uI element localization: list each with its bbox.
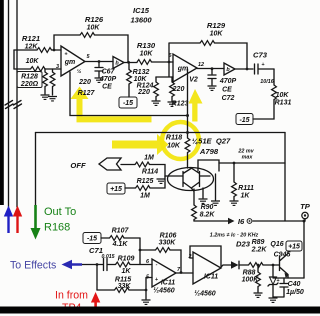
- op-amp U1b (IC15 second OTA): [169, 53, 205, 84]
- svg-text:½4560: ½4560: [153, 287, 175, 295]
- svg-text:In from: In from: [55, 290, 88, 302]
- svg-text:¼51E Q27: ¼51E Q27: [192, 137, 231, 146]
- svg-text:10K: 10K: [26, 58, 40, 65]
- wire I6 row: [194, 217, 306, 226]
- test point TP: [300, 202, 311, 221]
- wire pin5 to ground: [142, 278, 153, 305]
- resistor R106 330K: [140, 233, 182, 274]
- wire opamp1 out to opamp2: [176, 272, 193, 274]
- wire pin14 row: [156, 62, 173, 77]
- resistor R118 10K: [166, 131, 190, 168]
- svg-text:R114: R114: [142, 169, 158, 176]
- resistor R90 8.2K: [192, 189, 216, 221]
- svg-text:+15: +15: [288, 244, 300, 251]
- resistor R111 1K: [230, 163, 254, 205]
- resistor R126 (feedback): [54, 15, 128, 62]
- resistor R109 1K: [116, 256, 153, 276]
- svg-text:½: ½: [77, 68, 82, 75]
- blue up arrow annotation: [4, 206, 13, 234]
- supply box -15 (first): [119, 97, 137, 108]
- wire right edge drop: [303, 221, 305, 278]
- svg-text:R130: R130: [137, 41, 156, 50]
- op-amp U2b IC11: [188, 252, 222, 298]
- svg-text:-: -: [156, 262, 158, 268]
- transistor pair Q27: [168, 168, 214, 192]
- svg-text:-15: -15: [87, 236, 97, 243]
- resistor R127 220 (vertical): [48, 69, 95, 101]
- svg-text:330K: 330K: [159, 240, 177, 247]
- svg-text:C67: C67: [102, 69, 116, 76]
- capacitor C40 1u/50: [273, 278, 304, 297]
- svg-text:470P: 470P: [219, 78, 237, 85]
- svg-text:R129: R129: [207, 21, 226, 30]
- svg-text:220Ω: 220Ω: [20, 81, 39, 88]
- op-amp U1a (IC15 first OTA): [56, 46, 91, 76]
- svg-text:10K: 10K: [167, 143, 181, 150]
- green down arrow annotation: [31, 205, 41, 240]
- svg-text:IC11: IC11: [161, 280, 175, 287]
- svg-text:OFF: OFF: [70, 161, 86, 170]
- wire op2 out: [197, 68, 224, 70]
- resistor R121 12K: [14, 34, 61, 52]
- svg-text:R107: R107: [112, 228, 130, 235]
- svg-text:Out To: Out To: [44, 206, 76, 218]
- node output junction: [98, 60, 101, 63]
- resistor R132 10K to -15: [127, 62, 150, 97]
- svg-text:1M: 1M: [144, 155, 154, 162]
- buffer amp 2: [224, 63, 235, 75]
- red up arrow annotation bottom: [91, 292, 100, 312]
- svg-text:R131: R131: [275, 100, 292, 107]
- svg-text:-15: -15: [239, 117, 249, 124]
- svg-text:13600: 13600: [130, 16, 152, 25]
- wire buffer1 out: [124, 62, 137, 64]
- ground at pair left: [157, 179, 166, 183]
- svg-text:R89: R89: [252, 239, 265, 246]
- wire op-amp1 output: [85, 61, 113, 63]
- wire V2 drop: [187, 69, 189, 132]
- svg-text:10K: 10K: [276, 92, 290, 99]
- capacitor C67 470P: [95, 62, 117, 91]
- svg-text:Q16: Q16: [270, 241, 283, 248]
- svg-text:C40: C40: [288, 281, 301, 288]
- svg-text:C72: C72: [222, 95, 235, 102]
- svg-text:R111: R111: [238, 185, 254, 192]
- svg-text:10/16: 10/16: [260, 79, 274, 85]
- feedback loop wire: [190, 246, 221, 266]
- wire input line A: [8, 0, 10, 207]
- svg-text:V2: V2: [189, 77, 198, 84]
- svg-text:R126: R126: [85, 15, 104, 24]
- svg-text:CE: CE: [222, 87, 232, 94]
- svg-text:R90: R90: [201, 204, 214, 211]
- switch OFF pennant: [70, 158, 121, 170]
- op-amp U2a IC11: [146, 259, 181, 295]
- svg-text:A798: A798: [199, 147, 219, 156]
- svg-text:R132: R132: [133, 69, 150, 76]
- resistor R124 220 (vertical): [137, 77, 161, 105]
- svg-text:gm: gm: [177, 66, 189, 73]
- svg-text:R88: R88: [243, 270, 256, 277]
- resistor R114 1M: [121, 155, 169, 177]
- svg-text:1µ/50: 1µ/50: [286, 289, 304, 296]
- svg-text:10K: 10K: [87, 25, 101, 32]
- svg-text:CE: CE: [102, 84, 112, 91]
- svg-text:½4560: ½4560: [194, 290, 216, 298]
- resistor 10K input: [14, 58, 61, 71]
- yellow circle highlight around R118: [162, 122, 199, 159]
- svg-text:TP: TP: [300, 202, 311, 211]
- hash marks on input lines: [5, 101, 22, 109]
- wire right drop: [284, 133, 286, 222]
- svg-text:220: 220: [137, 89, 150, 96]
- supply box +15: [107, 183, 125, 194]
- resistor R123 220 (vertical): [168, 77, 189, 108]
- svg-text:1K: 1K: [122, 268, 132, 275]
- diode D23: [221, 240, 251, 269]
- svg-text:3: 3: [56, 64, 59, 70]
- svg-text:To Effects: To Effects: [10, 260, 56, 272]
- svg-text:12: 12: [198, 62, 204, 68]
- resistor R115 33K: [97, 277, 146, 293]
- svg-text:+15: +15: [110, 186, 122, 193]
- supply box -15 (third): [83, 233, 101, 244]
- zener diode D: [268, 265, 278, 302]
- wire buffer2 out: [235, 68, 253, 70]
- svg-text:1.2ms ≠ Ic · 20 KHz: 1.2ms ≠ Ic · 20 KHz: [210, 233, 259, 239]
- svg-text:R168: R168: [44, 222, 70, 234]
- svg-text:220: 220: [78, 79, 91, 86]
- svg-text:IC11: IC11: [204, 274, 218, 281]
- label IC15 13600: [130, 6, 152, 25]
- wire mid horizontal: [70, 72, 188, 116]
- svg-text:-15: -15: [123, 100, 133, 107]
- resistor R129 10K feedback: [169, 21, 247, 69]
- resistor R125 1M: [125, 176, 165, 200]
- svg-text:C73: C73: [253, 51, 268, 60]
- label box R128 220: [17, 72, 42, 89]
- supply box -15 (second): [236, 114, 253, 125]
- resistor R107 4.7K: [101, 228, 140, 249]
- svg-text:R127: R127: [78, 90, 96, 97]
- resistor R89 2.2K: [249, 239, 280, 267]
- red up arrow annotation: [13, 206, 22, 234]
- svg-text:33K: 33K: [118, 283, 132, 290]
- svg-text:10K: 10K: [210, 31, 224, 38]
- black scan bar bottom: [0, 307, 320, 314]
- wire out drop to green: [35, 133, 37, 206]
- resistor R130 10K: [137, 41, 173, 64]
- svg-text:R118: R118: [166, 135, 182, 142]
- wire emitter bus: [273, 277, 304, 279]
- transistor Q16 C945: [270, 241, 290, 278]
- wire collector to right: [219, 162, 285, 164]
- wire long bus: [36, 132, 286, 134]
- svg-text:gm: gm: [64, 59, 76, 66]
- yellow right arrow annotation: [112, 134, 169, 155]
- supply box +15 (fourth): [286, 241, 302, 251]
- blue left arrow annotation: [62, 260, 83, 269]
- yellow L-shaped up arrow annotation: [71, 87, 152, 123]
- resistor R88 100K: [242, 265, 263, 297]
- node junction at +input: [53, 49, 56, 52]
- svg-text:R128: R128: [21, 74, 38, 81]
- wire box drops to grounds: [199, 174, 221, 205]
- svg-text:10K: 10K: [140, 51, 154, 58]
- resistor R131 10K: [253, 69, 291, 119]
- collector loop box: [198, 160, 219, 171]
- buffer amp 1: [113, 57, 124, 69]
- capacitor C73 10/16: [253, 51, 275, 86]
- svg-text:R106: R106: [160, 233, 177, 240]
- svg-text:470P: 470P: [99, 76, 117, 83]
- label J51E Q27: [192, 137, 231, 157]
- svg-text:IC15: IC15: [133, 6, 150, 15]
- wire node column: [139, 238, 141, 265]
- yellow up arrow annotation: [189, 89, 203, 122]
- svg-text:max: max: [242, 155, 254, 161]
- capacitor C72 470P: [208, 69, 237, 102]
- wire node drop to R115: [96, 265, 98, 291]
- wire input line B: [16, 0, 18, 207]
- resistor R128 (vertical): [41, 69, 50, 99]
- capacitor C71 0.015: [82, 246, 116, 271]
- black scan bar left: [0, 0, 4, 205]
- svg-text:I6: I6: [238, 217, 245, 226]
- svg-text:8.2K: 8.2K: [200, 212, 216, 219]
- svg-text:R121: R121: [22, 34, 40, 43]
- label 22mv max: [237, 149, 254, 161]
- svg-text:R109: R109: [118, 256, 135, 263]
- svg-text:2.2K: 2.2K: [251, 247, 268, 254]
- svg-text:1M: 1M: [140, 193, 150, 200]
- svg-text:R125: R125: [137, 178, 154, 185]
- svg-text:1K: 1K: [241, 193, 251, 200]
- wire left column: [13, 50, 15, 69]
- svg-text:4.1K: 4.1K: [112, 241, 129, 248]
- svg-text:D23: D23: [236, 240, 251, 249]
